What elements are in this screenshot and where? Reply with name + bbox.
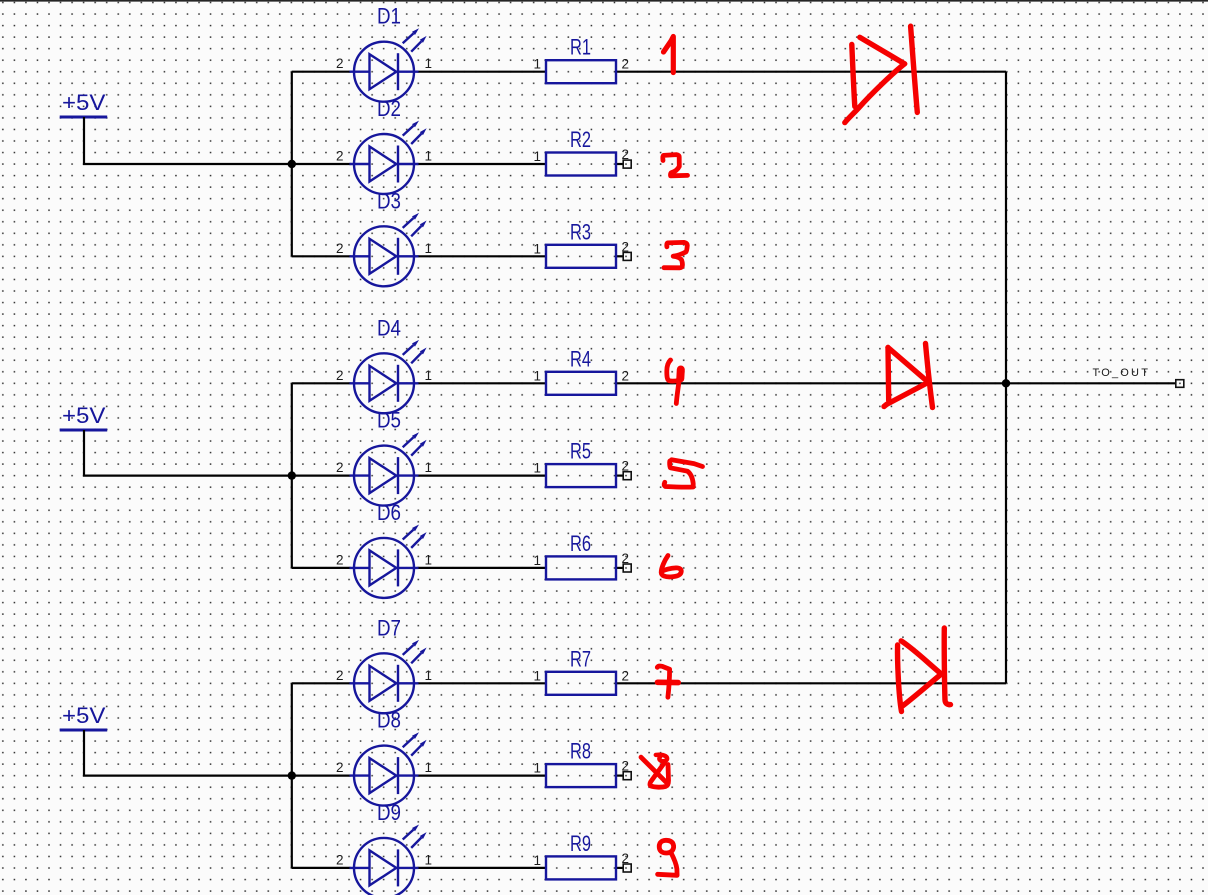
LED D5 bbox=[336, 408, 432, 506]
red annotation digit 4 bbox=[667, 360, 681, 404]
svg-text:R2: R2 bbox=[570, 127, 591, 152]
+5V supply 2 bbox=[60, 403, 107, 430]
wire R4 to right bus bbox=[616, 382, 1006, 384]
svg-text:1: 1 bbox=[533, 241, 541, 256]
red annotation digit 2 bbox=[663, 155, 688, 176]
terminal pin 2 R9 bbox=[623, 864, 631, 872]
LED D8 bbox=[336, 708, 432, 806]
resistor R9 bbox=[533, 831, 629, 880]
LED D2 bbox=[336, 96, 432, 194]
wire bus to D9 bbox=[292, 867, 351, 869]
svg-text:2: 2 bbox=[622, 459, 630, 474]
svg-text:2: 2 bbox=[336, 852, 344, 867]
wire stub R3 bbox=[616, 255, 623, 257]
svg-text:1: 1 bbox=[425, 149, 433, 164]
wire stub R5 bbox=[616, 475, 623, 477]
resistor R8 bbox=[533, 739, 629, 788]
wire D5 to R5 bbox=[418, 475, 547, 477]
terminal pin 2 R5 bbox=[623, 472, 631, 480]
wire right bus bbox=[1005, 72, 1007, 684]
svg-text:1: 1 bbox=[533, 149, 541, 164]
svg-text:2: 2 bbox=[336, 241, 344, 256]
wire bus to D3 bbox=[292, 255, 351, 257]
svg-text:R6: R6 bbox=[570, 531, 591, 556]
svg-text:1: 1 bbox=[425, 241, 433, 256]
wire group 2 left bus bbox=[291, 383, 293, 568]
wire D9 to R9 bbox=[418, 867, 547, 869]
red diode sketch 2 bbox=[884, 344, 933, 408]
resistor R2 bbox=[533, 127, 629, 176]
wire from +5V 3 to bus bbox=[84, 730, 292, 776]
svg-text:1: 1 bbox=[425, 760, 433, 775]
resistor R4 bbox=[533, 346, 629, 395]
svg-text:2: 2 bbox=[336, 460, 344, 475]
LED D6 bbox=[336, 500, 432, 598]
svg-text:1: 1 bbox=[533, 853, 541, 868]
svg-text:2: 2 bbox=[336, 668, 344, 683]
red diode sketch 1 bbox=[845, 26, 918, 122]
svg-text:1: 1 bbox=[533, 368, 541, 383]
svg-text:1: 1 bbox=[533, 57, 541, 72]
svg-text:2: 2 bbox=[336, 552, 344, 567]
svg-text:1: 1 bbox=[533, 553, 541, 568]
junction right bus bbox=[1002, 379, 1010, 387]
wire group 1 left bus bbox=[291, 72, 293, 257]
svg-text:R9: R9 bbox=[570, 831, 591, 856]
svg-text:TO_OUT: TO_OUT bbox=[1093, 367, 1151, 379]
svg-text:D3: D3 bbox=[377, 188, 401, 213]
terminal pin 2 R8 bbox=[623, 772, 631, 780]
LED D1 bbox=[336, 4, 432, 102]
svg-text:1: 1 bbox=[533, 461, 541, 476]
wire D1 to R1 bbox=[418, 71, 547, 73]
svg-text:1: 1 bbox=[425, 368, 433, 383]
svg-text:D9: D9 bbox=[377, 800, 401, 825]
svg-text:2: 2 bbox=[622, 759, 630, 774]
svg-text:2: 2 bbox=[336, 760, 344, 775]
junction group 1 bbox=[288, 160, 296, 168]
wire bus to D2 bbox=[292, 163, 351, 165]
svg-text:2: 2 bbox=[622, 368, 630, 383]
junction group 3 bbox=[288, 771, 296, 779]
red annotation digit 8 bbox=[641, 755, 669, 788]
svg-text:2: 2 bbox=[336, 149, 344, 164]
wire bus to D7 bbox=[292, 682, 351, 684]
wire D2 to R2 bbox=[418, 163, 547, 165]
svg-text:1: 1 bbox=[533, 761, 541, 776]
terminal TO_OUT bbox=[1176, 380, 1184, 388]
wire D8 to R8 bbox=[418, 774, 547, 776]
terminal pin 2 R2 bbox=[623, 160, 631, 168]
svg-text:R7: R7 bbox=[570, 646, 591, 671]
resistor R3 bbox=[533, 219, 629, 267]
+5V supply 1 bbox=[60, 90, 107, 117]
wire R7 to right bus bbox=[616, 682, 1006, 684]
wire stub R2 bbox=[616, 163, 623, 165]
svg-text:2: 2 bbox=[622, 147, 630, 162]
resistor R7 bbox=[533, 646, 629, 695]
svg-text:1: 1 bbox=[425, 668, 433, 683]
svg-text:1: 1 bbox=[425, 460, 433, 475]
junction group 2 bbox=[288, 471, 296, 479]
wire stub R6 bbox=[616, 567, 623, 569]
wire bus to D6 bbox=[292, 567, 351, 569]
resistor R5 bbox=[533, 439, 629, 488]
svg-text:D8: D8 bbox=[377, 708, 401, 733]
svg-text:1: 1 bbox=[425, 56, 433, 71]
wire stub R8 bbox=[616, 774, 623, 776]
wire D4 to R4 bbox=[418, 382, 547, 384]
svg-text:2: 2 bbox=[622, 57, 630, 72]
svg-text:R1: R1 bbox=[570, 35, 591, 60]
wire bus to D1 bbox=[292, 71, 351, 73]
svg-text:2: 2 bbox=[622, 551, 630, 566]
svg-text:D1: D1 bbox=[377, 4, 401, 29]
red annotation digit 1 bbox=[664, 37, 674, 73]
wire bus to D8 bbox=[292, 774, 351, 776]
red annotation digit 5 bbox=[664, 460, 702, 487]
LED D3 bbox=[336, 188, 432, 286]
LED D9 bbox=[336, 800, 432, 895]
svg-text:R4: R4 bbox=[570, 346, 591, 371]
wire D7 to R7 bbox=[418, 682, 547, 684]
red diode sketch 3 bbox=[898, 628, 951, 712]
wire from +5V 1 to bus bbox=[84, 117, 292, 164]
svg-text:2: 2 bbox=[622, 239, 630, 254]
svg-text:1: 1 bbox=[425, 552, 433, 567]
svg-text:2: 2 bbox=[336, 56, 344, 71]
terminal pin 2 R3 bbox=[623, 252, 631, 260]
wire D6 to R6 bbox=[418, 567, 547, 569]
wire R1 to right bus bbox=[616, 71, 1006, 73]
resistor R6 bbox=[533, 531, 629, 580]
svg-text:D4: D4 bbox=[377, 315, 401, 340]
svg-text:D7: D7 bbox=[377, 615, 401, 640]
wire bus to D4 bbox=[292, 382, 351, 384]
LED D4 bbox=[336, 315, 432, 413]
resistor R1 bbox=[533, 35, 629, 83]
terminal pin 2 R6 bbox=[623, 564, 631, 572]
svg-text:1: 1 bbox=[533, 668, 541, 683]
red annotation digit 9 bbox=[658, 840, 678, 875]
LED D7 bbox=[336, 615, 432, 713]
wire stub R9 bbox=[616, 867, 623, 869]
wire bus to D5 bbox=[292, 475, 351, 477]
red annotation digit 7 bbox=[657, 666, 678, 697]
red annotation digit 3 bbox=[664, 242, 687, 267]
wire from +5V 2 to bus bbox=[84, 430, 292, 476]
svg-text:D2: D2 bbox=[377, 96, 401, 121]
svg-text:D6: D6 bbox=[377, 500, 401, 525]
red annotation digit 6 bbox=[661, 556, 681, 577]
svg-text:R5: R5 bbox=[570, 439, 591, 464]
wire to TO_OUT terminal bbox=[1006, 382, 1176, 384]
svg-text:2: 2 bbox=[622, 668, 630, 683]
svg-text:2: 2 bbox=[336, 368, 344, 383]
svg-text:D5: D5 bbox=[377, 408, 401, 433]
svg-text:R3: R3 bbox=[570, 219, 591, 244]
+5V supply 3 bbox=[60, 703, 107, 730]
svg-text:R8: R8 bbox=[570, 739, 591, 764]
svg-text:2: 2 bbox=[622, 851, 630, 866]
svg-text:1: 1 bbox=[425, 852, 433, 867]
wire group 3 left bus bbox=[291, 683, 293, 868]
wire D3 to R3 bbox=[418, 255, 547, 257]
